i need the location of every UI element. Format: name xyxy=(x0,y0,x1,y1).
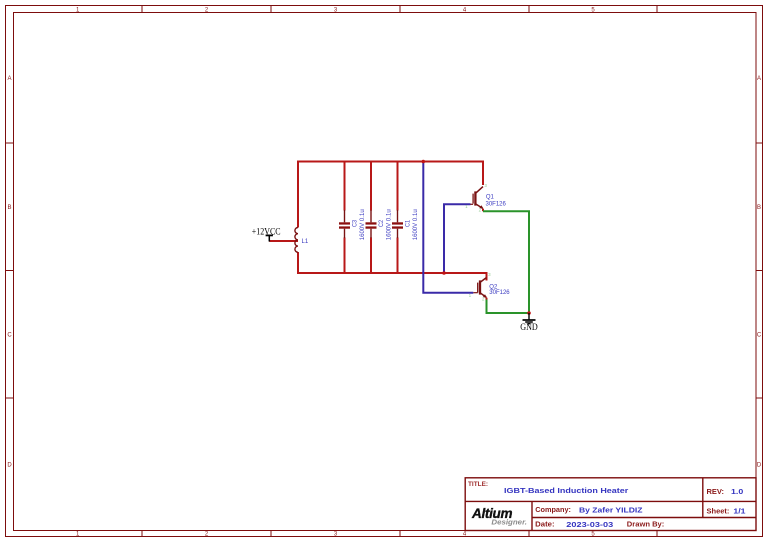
svg-text:Drawn By:: Drawn By: xyxy=(627,520,665,529)
svg-text:By Zafer YILDIZ: By Zafer YILDIZ xyxy=(579,505,643,514)
svg-text:Designer.: Designer. xyxy=(491,517,527,526)
svg-text:30F126: 30F126 xyxy=(486,202,507,208)
svg-text:D: D xyxy=(757,463,762,469)
wire: green emitter net Q1 xyxy=(483,211,529,313)
capacitor C3 xyxy=(339,210,359,238)
svg-text:1600V 0.1u: 1600V 0.1u xyxy=(387,209,393,240)
wire: Q1 emitter stub xyxy=(482,209,484,211)
svg-text:A: A xyxy=(757,76,761,82)
transistor Q1 (IGBT) xyxy=(470,187,483,209)
ground GND xyxy=(520,313,538,332)
svg-text:C1: C1 xyxy=(406,219,412,227)
svg-text:C2: C2 xyxy=(379,219,385,227)
wire: blue gate net to Q1 (to bottom rail) xyxy=(444,204,471,272)
wire: C1 upper stem xyxy=(397,161,399,211)
svg-text:L1: L1 xyxy=(302,239,309,245)
svg-text:Q1: Q1 xyxy=(486,194,495,200)
wire: Q2 emitter stub xyxy=(486,298,488,300)
wire: Q1 collector drop xyxy=(482,161,484,186)
wire: Q2 collector drop xyxy=(486,272,488,281)
wire: left vertical below L1 xyxy=(297,252,299,274)
svg-text:1/1: 1/1 xyxy=(733,506,745,515)
capacitor C1 xyxy=(392,210,412,238)
wire: top rail xyxy=(297,161,484,163)
svg-text:1600V 0.1u: 1600V 0.1u xyxy=(413,209,419,240)
svg-text:GND: GND xyxy=(520,322,538,332)
power port +12VCC xyxy=(252,228,281,242)
svg-text:C: C xyxy=(757,333,762,339)
svg-text:C3: C3 xyxy=(353,219,359,227)
pin numbers Q1 xyxy=(465,183,487,213)
svg-text:IGBT-Based Induction Heater: IGBT-Based Induction Heater xyxy=(504,486,628,495)
wire: left vertical above L1 xyxy=(297,161,299,228)
wire: blue gate net to Q2 (from top rail) xyxy=(423,162,473,293)
wire: green emitter net Q2 to GND xyxy=(487,300,530,314)
svg-text:Date:: Date: xyxy=(535,520,554,529)
svg-text:D: D xyxy=(7,463,12,469)
capacitor C2 xyxy=(366,210,386,238)
inductor L1 xyxy=(295,228,298,253)
junction node: green / GND xyxy=(527,311,531,315)
junction node: bottom rail / blue xyxy=(442,271,446,275)
wire: C1 lower stem xyxy=(397,238,399,275)
svg-text:Sheet:: Sheet: xyxy=(707,506,730,515)
junction node: top rail / blue xyxy=(422,160,426,164)
svg-text:B: B xyxy=(757,205,761,211)
svg-text:30F126: 30F126 xyxy=(489,290,510,296)
wire: bottom rail xyxy=(297,272,487,274)
svg-text:Company:: Company: xyxy=(535,505,571,514)
pin numbers Q2 xyxy=(469,272,492,301)
wire: C3 lower stem xyxy=(344,238,346,275)
transistor Q2 (IGBT) xyxy=(473,278,487,299)
wire: C3 upper stem xyxy=(344,161,346,211)
wire: C2 lower stem xyxy=(370,238,372,275)
svg-text:1.0: 1.0 xyxy=(731,487,743,496)
svg-text:TITLE:: TITLE: xyxy=(468,481,488,488)
svg-text:C: C xyxy=(7,333,12,339)
svg-text:2023-03-03: 2023-03-03 xyxy=(566,520,613,529)
svg-text:B: B xyxy=(7,205,11,211)
wire: C2 upper stem xyxy=(370,161,372,211)
wire: +12VCC tap to L1 xyxy=(269,240,298,242)
svg-text:A: A xyxy=(7,76,11,82)
svg-text:REV:: REV: xyxy=(707,487,725,496)
svg-text:1600V 0.1u: 1600V 0.1u xyxy=(360,209,366,240)
